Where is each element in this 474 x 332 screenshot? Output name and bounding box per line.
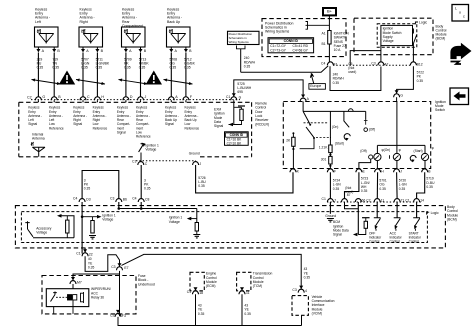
switch wiper path [300, 138, 314, 149]
svg-text:301: 301 [321, 157, 327, 161]
start return spring arrow (lamp row) [410, 155, 416, 161]
svg-text:F: F [334, 169, 336, 173]
on indicator lamp [393, 153, 400, 160]
svg-text:7: 7 [334, 198, 336, 202]
resistor 2K [292, 133, 294, 137]
switch terminal B [422, 169, 428, 172]
switch terminal F [327, 169, 333, 172]
BCM logic inner dashed box [21, 212, 427, 243]
svg-text:87: 87 [347, 193, 351, 197]
LOC navigation box icon [452, 5, 469, 22]
svg-text:Ground: Ground [189, 151, 200, 155]
svg-text:B+: B+ [327, 8, 333, 13]
BCM ignition mode data signal wire [357, 202, 359, 235]
wire 240 RD/WH from F1 to A7 [330, 66, 381, 90]
RCDLR connector terminal A [168, 97, 174, 100]
twisted pair indicator 3 [119, 80, 148, 85]
wire 5708 OG [170, 53, 172, 97]
indicator lamp bus from G [396, 102, 398, 154]
switch terminal K [290, 169, 296, 172]
RCDLR connector terminal B [51, 97, 57, 100]
resistor 301 [329, 153, 331, 157]
svg-text:C3: C3 [292, 288, 296, 292]
accessory voltage circuit wires [33, 237, 74, 239]
TCM connector terminal 11 [239, 291, 245, 294]
svg-text:1.21K: 1.21K [319, 146, 328, 150]
svg-text:o: o [459, 10, 461, 14]
accessory voltage switch [25, 221, 29, 229]
warning triangle 1 [59, 71, 75, 85]
warning triangle 2 [146, 71, 162, 85]
EXM ignition mode data signal wire with pull-up [233, 100, 235, 124]
resistor (accessory pull) [66, 216, 68, 220]
svg-text:C4: C4 [321, 61, 325, 65]
RCDLR connector terminal J [138, 97, 144, 100]
antenna symbol 2 [83, 34, 98, 44]
vehicle communication interface module (VCIM) dashed box [292, 296, 308, 316]
keyless entry antenna - Back Up box [167, 27, 191, 47]
logic label (BCM top) [415, 22, 418, 24]
resistor to ground (ignition 1) [195, 223, 198, 232]
switch terminal A [300, 98, 306, 101]
svg-text:66 C2: 66 C2 [362, 198, 371, 202]
relay coil [68, 295, 72, 300]
svg-text:11: 11 [246, 291, 250, 295]
wire 5722 PK from B12 to switch G [397, 66, 414, 93]
RCDLR connector C1 terminal C [138, 162, 144, 165]
power distribution solid box (Europe feed) [228, 31, 260, 44]
svg-text:C1: C1 [76, 251, 80, 255]
BCM logic inner dashed box [377, 24, 417, 47]
body control module (BCM) top dashed box [354, 18, 433, 55]
data signal pull-up resistor [362, 217, 370, 219]
antenna 3 terminal A [125, 47, 127, 49]
switch terminal J [394, 169, 400, 172]
lamp output wires to terminals [376, 161, 378, 169]
CONN ID table (RCDLR) [225, 132, 249, 146]
fuse block terminal M7 [70, 281, 76, 284]
start indicator lamp [421, 153, 428, 160]
svg-text:(On): (On) [332, 125, 339, 129]
connector terminal 14 [414, 199, 420, 202]
svg-text:C2: C2 [110, 313, 114, 317]
connector C5 (not used) stub [349, 57, 351, 65]
svg-text:J: J [200, 162, 202, 166]
inline connector row dotted line [333, 64, 412, 66]
antenna symbol 3 [126, 34, 141, 44]
wire 5726 L-BU 0.35 (J to K) [196, 165, 293, 193]
RCDLR connector terminal F [183, 97, 189, 100]
RCDLR connector C1 terminal G (EXM data) [231, 97, 237, 100]
wire E7 to VCIM branch [122, 254, 302, 289]
antenna 1 terminal B [53, 47, 55, 49]
switch common bus from A [302, 102, 304, 112]
RCDLR connector terminal C [80, 97, 86, 100]
switch terminal H [375, 169, 381, 172]
svg-text:C1=72-GYC2=73-GY: C1=72-GYC2=73-GY [270, 44, 286, 52]
logic label (BCM main) [427, 212, 430, 214]
switch arm (rotary contact) [303, 111, 314, 137]
svg-text:4: 4 [305, 289, 307, 293]
svg-text:J: J [400, 169, 402, 173]
svg-text:Logic: Logic [419, 21, 427, 25]
(On) contact [329, 111, 331, 128]
svg-text:B12: B12 [417, 62, 423, 66]
antenna 1 terminal A [37, 47, 39, 49]
branch wire to relay M7 [73, 274, 120, 281]
BCM ground (terminal 7) [329, 202, 331, 214]
switch terminal G [394, 94, 400, 97]
svg-text:C1: C1 [132, 159, 136, 163]
fuse block connector C2 terminal F3 [115, 313, 121, 316]
(Off) contact [365, 111, 367, 119]
ACC indicator driver transistor [396, 202, 398, 218]
connector C3/A7 [378, 62, 384, 65]
ignition mode switch supply voltage box [381, 25, 413, 45]
svg-text:J: J [145, 95, 147, 99]
(Off) contact wire to terminal E [359, 159, 371, 168]
wire 5719 D-BU 0.35 (B to 14) [417, 172, 425, 198]
BCM internal switch to B12 [413, 29, 416, 44]
ignition 1 voltage output (right) [196, 209, 198, 223]
connector C4/F1 [327, 62, 333, 65]
keyless entry antenna - Left box [35, 27, 59, 47]
RCDLR connector terminal J (ground) [193, 162, 199, 165]
svg-text:φ(On): φ(On) [382, 148, 391, 152]
relay lower pins [53, 307, 55, 314]
wire 5720 L-GN 0.35 (J to 71) [396, 172, 399, 198]
87 to 66 elbow wire [345, 202, 359, 209]
antenna 4 terminal A [170, 47, 172, 49]
svg-text:InternalAntenna: InternalAntenna [32, 132, 45, 140]
antenna symbol 4 [171, 34, 186, 44]
svg-text:C3: C3 [111, 265, 115, 269]
resistor to ground (D3 branch) [92, 217, 94, 221]
wire B12 to BCM switch [412, 44, 414, 62]
wire 5701 OG 0.35 (H to 11) [376, 172, 378, 198]
ECM connector C1 terminal 18 [193, 291, 199, 294]
svg-text:14: 14 [420, 198, 424, 202]
svg-text:H: H [101, 95, 104, 99]
svg-text:C2: C2 [27, 95, 32, 99]
svg-text:φ: φ [432, 146, 434, 150]
svg-text:C3: C3 [371, 61, 375, 65]
svg-text:CONN ID: CONN ID [230, 133, 244, 137]
svg-text:G: G [239, 96, 242, 100]
svg-text:C8: C8 [145, 197, 149, 201]
tick mark between lamps [389, 155, 391, 159]
OFF indicator driver transistor [376, 202, 378, 218]
svg-text:C1: C1 [187, 290, 191, 294]
CONN ID table (power distribution) [268, 38, 314, 53]
BCM connector C3 terminal B6 [116, 199, 122, 202]
svg-text:B6: B6 [123, 197, 127, 201]
svg-text:D3: D3 [86, 197, 90, 201]
wire 219 PU [37, 53, 39, 97]
switch terminal E [356, 169, 362, 172]
wire from B+ to fuse [328, 15, 330, 30]
(Start) contact drop [344, 111, 349, 127]
shortcut right-arrow icon [451, 44, 471, 59]
svg-text:C: C [87, 95, 90, 99]
svg-text:(Start): (Start) [335, 142, 344, 146]
keyless entry antenna - Rear Compartment box [122, 27, 146, 47]
svg-text:Europe: Europe [310, 84, 321, 88]
svg-text:(Off): (Off) [360, 149, 367, 153]
BCM connector C4 terminal D3 [79, 199, 85, 202]
wire 5725 L-BU/WH 695 (C1 G to switch A) [234, 80, 303, 97]
svg-text:L: L [455, 6, 457, 10]
svg-text:M7: M7 [77, 280, 82, 284]
wire 719 TN [53, 53, 55, 97]
wire 5711 L-GN/BK [96, 53, 98, 97]
wire 43 YE bus to modules [118, 317, 302, 326]
fuse block - underhood dashed box [42, 276, 136, 314]
wire D3 through BCM to 22 [81, 202, 83, 254]
twisted pair indicator 1 [32, 80, 61, 85]
resistor 1.21K [329, 129, 331, 146]
ignition 1 voltage stub (D3) [82, 216, 97, 218]
body control module (BCM) outer dashed box [15, 206, 445, 248]
relay armature bracket [81, 292, 84, 303]
wire supply voltage to A7 and C5 [380, 46, 382, 62]
wire 5712 OG/BK [185, 53, 187, 97]
VCIM connector C3 terminal 4 [298, 289, 304, 292]
svg-text:(Off): (Off) [369, 127, 376, 131]
svg-text:G: G [400, 93, 403, 97]
wire 5713 PK/BK [140, 53, 142, 97]
connector C2 terminal 66 [355, 199, 361, 202]
terminal arrows at connectors [301, 95, 305, 98]
antenna symbol 1 [39, 34, 54, 44]
svg-text:22: 22 [89, 253, 93, 257]
switch mechanical linkage dashed lines [304, 122, 328, 124]
svg-text:A7: A7 [384, 62, 388, 66]
relay contact (left) [51, 292, 57, 302]
wire 43 YE 0.35 (ECM) [195, 294, 197, 325]
B+ power feed box [323, 8, 336, 15]
BCM connector C1 terminal 22 [82, 253, 88, 256]
fuse block connector C3 terminal E7 [117, 267, 123, 270]
connector B12 [410, 62, 416, 65]
engine control module (ECM) dashed box [190, 272, 204, 291]
svg-text:71 C1: 71 C1 [401, 198, 410, 202]
twisted pair indicator 4 [164, 80, 193, 85]
svg-text:C3: C3 [110, 196, 114, 200]
bracket from reference to fuse wire [306, 22, 308, 26]
ignition mode switch dashed box [283, 102, 430, 169]
wire 5709 PK [125, 53, 127, 97]
svg-text:C4: C4 [73, 196, 77, 200]
svg-text:18: 18 [199, 291, 203, 295]
svg-text:G: G [42, 95, 45, 99]
WIPER/RUN/ACC relay 36 box [46, 289, 89, 307]
svg-text:A1: A1 [322, 32, 326, 36]
wire 5723 L-GN/WH (E to 87, not used) [345, 172, 359, 198]
twisted pair indicator 2 [76, 80, 105, 85]
svg-text:11: 11 [381, 198, 385, 202]
remote control door lock receiver (RCDLR) dashed box [18, 102, 20, 157]
connector C1 terminal 71 [394, 199, 400, 202]
Europe label [309, 84, 326, 90]
wire E7 down through fuse block to F3 [119, 271, 121, 316]
connector C1 terminal 7 [327, 199, 333, 202]
keyless entry antenna - Right box [79, 27, 103, 47]
BCM connector C4 terminal C8 [138, 199, 144, 202]
(Off) small contact at lamp row [369, 155, 373, 159]
antenna 2 terminal B [96, 47, 98, 49]
START indicator driver transistor [416, 202, 418, 218]
RCDLR bottom connector dotted line [136, 160, 196, 162]
svg-text:c: c [463, 14, 465, 18]
bracket below power distribution box [237, 46, 246, 49]
transmission control module (TCM) dashed box [237, 272, 251, 291]
connector terminal 87 [342, 199, 348, 202]
(Start) return spring symbol [344, 134, 350, 140]
svg-text:C4: C4 [132, 196, 136, 200]
svg-text:D: D [130, 95, 133, 99]
jumper wire D3 to B6 (ignition 1 voltage loop) [82, 171, 119, 199]
svg-text:E7: E7 [124, 266, 128, 270]
off indicator lamp [374, 153, 381, 160]
BCM C1 connector dotted row [327, 201, 421, 203]
wire fuse B1 to connector C4 [328, 44, 330, 62]
svg-text:φ: φ [399, 148, 401, 152]
svg-text:Logic: Logic [431, 211, 439, 215]
RCDLR ignition 1 voltage label [139, 144, 146, 152]
svg-text:C1=16 BKC2=10 BK: C1=16 BKC2=10 BK [227, 138, 242, 146]
svg-text:(Start): (Start) [414, 149, 423, 153]
svg-text:Ground: Ground [325, 214, 336, 218]
power distribution dashed box [262, 19, 346, 57]
back left-arrow box icon [450, 88, 469, 105]
antenna 2 terminal A [82, 47, 84, 49]
svg-text:F1: F1 [334, 62, 338, 66]
wire 3 PK 0.35 (C to C8) [140, 165, 142, 199]
svg-text:C1: C1 [322, 197, 326, 201]
svg-text:EngineControlModule(ECM): EngineControlModule(ECM) [206, 272, 217, 288]
RCDLR connector terminal G [35, 97, 41, 100]
svg-text:B1: B1 [322, 42, 326, 46]
svg-text:C5=41 RDC4=68 GY: C5=41 RDC4=68 GY [293, 44, 309, 52]
svg-text:C1: C1 [226, 95, 230, 99]
wire 43 YE 0.35 (TCM) [241, 294, 243, 325]
svg-text:CONN ID: CONN ID [284, 39, 299, 43]
internal antenna symbol [32, 147, 45, 157]
wire 5724 L-GN 0.35 (F to 7) [329, 172, 331, 198]
RCDLR C2 connector dotted face line [31, 99, 240, 101]
svg-text:F3: F3 [122, 314, 126, 318]
connector terminal 11 [374, 199, 380, 202]
RCDLR connector terminal D [123, 97, 129, 100]
antenna 3 terminal B [140, 47, 142, 49]
antenna 4 terminal B [185, 47, 187, 49]
wire B6/C8 ignition 1 voltage bus [118, 202, 120, 209]
wire 5707 L-GN [82, 53, 84, 97]
RCDLR connector terminal H [94, 97, 100, 100]
